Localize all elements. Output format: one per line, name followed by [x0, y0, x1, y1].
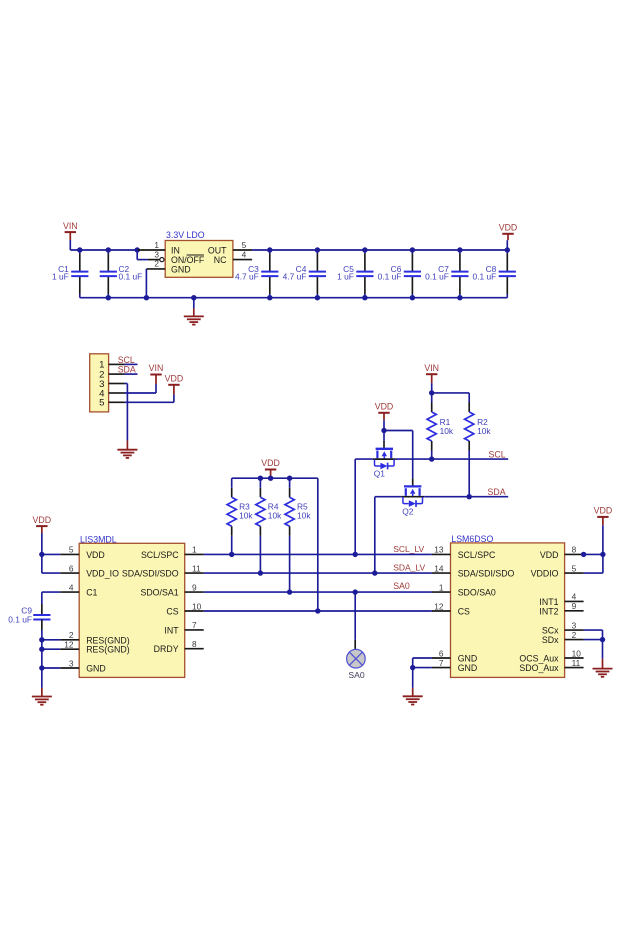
- svg-text:CS: CS: [458, 607, 470, 617]
- svg-text:6: 6: [439, 648, 444, 658]
- net label SCL_LV: [393, 544, 424, 554]
- wire VIN node to R2 top: [432, 393, 470, 403]
- svg-text:GND: GND: [458, 654, 478, 664]
- wire VDD rail to CS net: [317, 478, 319, 611]
- power flag VDD at LIS3MDL: [33, 515, 52, 555]
- LDO pin 2 GND wire: [146, 259, 165, 298]
- connector pin 5 stub: [109, 401, 125, 403]
- svg-text:VDD_IO: VDD_IO: [86, 569, 119, 579]
- wire to pin 12: [42, 648, 60, 650]
- junction bottom rail at ground stem: [191, 295, 196, 300]
- wire net SDA stub: [125, 373, 138, 375]
- wire pin 5 to VDD: [584, 554, 603, 573]
- junction bottom rail at C6: [410, 295, 415, 300]
- svg-text:SDx: SDx: [542, 635, 559, 645]
- svg-text:10: 10: [192, 601, 202, 611]
- junction bottom rail at C3: [267, 295, 272, 300]
- wire to pin 3: [42, 667, 60, 669]
- junction SCL at R1: [429, 456, 434, 461]
- LSM6DSO right pins 8 5 4 9 3 2 10 11: [519, 545, 583, 673]
- wire SDA net: [424, 496, 508, 498]
- resistor R5 10k: [285, 478, 311, 592]
- junction top rail at C3: [267, 247, 272, 252]
- wire VDD to pin 6: [42, 554, 60, 573]
- wire VIN top rail: [70, 249, 137, 251]
- junction VDD gate node: [381, 428, 386, 433]
- svg-text:1 uF: 1 uF: [337, 271, 354, 281]
- svg-text:SCL/SPC: SCL/SPC: [141, 550, 179, 560]
- svg-text:SCL_LV: SCL_LV: [393, 544, 424, 554]
- svg-text:2: 2: [572, 630, 577, 640]
- svg-text:10: 10: [572, 648, 582, 658]
- junction VIN node at R1 top: [429, 390, 434, 395]
- svg-text:VIN: VIN: [424, 363, 439, 373]
- svg-text:10k: 10k: [297, 511, 311, 521]
- svg-text:SA0: SA0: [348, 670, 364, 680]
- junction top rail at C5: [362, 247, 367, 252]
- junction C9 rail at pin12: [39, 647, 44, 652]
- junction SDA_LV at Q2 branch: [372, 570, 377, 575]
- wire net SCL stub: [125, 363, 138, 365]
- svg-text:8: 8: [192, 639, 197, 649]
- connector pin 2 stub: [109, 373, 125, 375]
- wire pin 8 to VDD: [584, 553, 603, 555]
- wire CS bus: [204, 610, 432, 612]
- junction top rail at C6: [410, 247, 415, 252]
- wire to pin 2: [42, 639, 60, 641]
- power flag VDD at LSM6DSO: [594, 506, 613, 555]
- resistor R1 10k: [427, 393, 454, 459]
- svg-text:VDDIO: VDDIO: [531, 569, 559, 579]
- wire LDO OUT top rail: [252, 249, 507, 251]
- LDO pin names: [171, 246, 227, 275]
- wire VDD to pin 5: [42, 553, 60, 555]
- ground below LSM6DSO: [403, 688, 423, 705]
- svg-text:VDD: VDD: [261, 458, 280, 468]
- wire pull-up VDD rail: [232, 477, 318, 479]
- wire SDA_LV bus: [204, 572, 432, 574]
- IC U1 LIS3MDL magnetometer: [79, 534, 185, 677]
- net label SA0: [393, 581, 410, 591]
- power flag VIN at connector: [149, 363, 164, 384]
- junction SA0 at jumper branch: [353, 589, 358, 594]
- svg-text:VDD: VDD: [499, 223, 518, 233]
- svg-text:4: 4: [69, 582, 74, 592]
- svg-text:GND: GND: [171, 264, 191, 274]
- svg-text:Q2: Q2: [402, 506, 414, 516]
- svg-text:OCS_Aux: OCS_Aux: [519, 654, 559, 664]
- LSM6DSO left pins 13 14 1 12 6 7: [432, 545, 515, 673]
- transistor Q1 N-MOSFET: [373, 449, 396, 479]
- ground below LDO: [184, 298, 204, 325]
- svg-text:1: 1: [439, 582, 444, 592]
- capacitor C6 0.1 uF: [378, 250, 421, 298]
- capacitor C1 1 uF: [52, 250, 88, 298]
- junction SCL_LV at Q1 branch: [353, 552, 358, 557]
- svg-text:1 uF: 1 uF: [52, 271, 69, 281]
- junction bottom rail at C2: [106, 295, 111, 300]
- svg-text:SDA_LV: SDA_LV: [393, 563, 425, 573]
- junction VDD at pin8 row: [600, 552, 605, 557]
- svg-text:10k: 10k: [239, 511, 253, 521]
- svg-text:10k: 10k: [440, 426, 454, 436]
- svg-text:7: 7: [439, 658, 444, 668]
- svg-text:4.7 uF: 4.7 uF: [235, 271, 259, 281]
- resistor R3 10k: [227, 478, 253, 554]
- svg-text:SDA: SDA: [488, 487, 506, 497]
- junction pull-up rail at R4: [258, 476, 263, 481]
- wire VDD node to Q1 gate: [383, 431, 385, 449]
- svg-text:9: 9: [192, 582, 197, 592]
- svg-text:LSM6DSO: LSM6DSO: [451, 534, 493, 544]
- ground below LIS3MDL: [32, 688, 52, 705]
- svg-text:0.1 uF: 0.1 uF: [378, 271, 402, 281]
- wire pin 4 to C9: [42, 592, 60, 615]
- LDO pin 4 NC stub: [233, 249, 252, 259]
- junction bottom rail at C5: [362, 295, 367, 300]
- svg-text:0.1 uF: 0.1 uF: [473, 271, 497, 281]
- junction pull-up rail at VDD: [268, 476, 273, 481]
- wire pin3 to ground: [125, 384, 128, 441]
- svg-text:VDD: VDD: [33, 515, 52, 525]
- junction top rail at C4: [315, 247, 320, 252]
- svg-text:LIS3MDL: LIS3MDL: [80, 534, 117, 544]
- junction top rail at C1: [77, 247, 82, 252]
- ground below connector: [117, 441, 137, 458]
- svg-text:SDO_Aux: SDO_Aux: [519, 663, 559, 673]
- capacitor C3 4.7 uF: [235, 250, 278, 298]
- svg-text:SCL: SCL: [118, 355, 135, 365]
- junction top rail at C7: [457, 247, 462, 252]
- svg-text:3: 3: [69, 658, 74, 668]
- connector pin 3 stub: [109, 383, 125, 385]
- svg-text:13: 13: [434, 545, 444, 555]
- wire Q2 to SDA_LV: [375, 497, 401, 573]
- connector pin 1 stub: [109, 363, 125, 365]
- net label SCL: [488, 449, 505, 459]
- junction bottom rail at LDO GND: [144, 295, 149, 300]
- junction bottom rail at C4: [315, 295, 320, 300]
- svg-text:2: 2: [154, 259, 159, 269]
- svg-text:9: 9: [572, 601, 577, 611]
- wire SCL_LV bus: [204, 553, 432, 555]
- svg-text:SDA: SDA: [118, 365, 136, 375]
- LIS3MDL right pins 1 11 9 10 7 8: [122, 545, 204, 655]
- svg-text:SA0: SA0: [393, 581, 410, 591]
- wire VDD node to Q2 gate: [384, 431, 413, 487]
- svg-text:RES(GND): RES(GND): [86, 645, 130, 655]
- svg-text:1: 1: [192, 545, 197, 555]
- power flag VIN above R1: [424, 363, 439, 393]
- svg-text:SCL/SPC: SCL/SPC: [458, 550, 496, 560]
- junction SDA at R2: [467, 494, 472, 499]
- junction C9 rail at pin2: [39, 637, 44, 642]
- junction top rail at C8: [505, 247, 510, 252]
- capacitor C2 0.1 uF: [100, 250, 143, 298]
- junction CS at VDD pull-up: [315, 608, 320, 613]
- transistor Q2 N-MOSFET: [401, 486, 424, 516]
- svg-text:3: 3: [572, 620, 577, 630]
- svg-text:0.1 uF: 0.1 uF: [119, 271, 143, 281]
- svg-text:6: 6: [69, 563, 74, 573]
- svg-text:Q1: Q1: [374, 469, 386, 479]
- junction top rail at C2: [106, 247, 111, 252]
- svg-text:11: 11: [572, 658, 581, 668]
- LIS3MDL left pins 5 6 4 2 12 3: [60, 545, 130, 674]
- wire Q1 to SCL_LV: [355, 459, 373, 554]
- wire pin4 to VIN: [125, 384, 157, 393]
- LDO pin 1 IN stub: [137, 240, 165, 250]
- junction top rail at LDO ON/OFF branch: [135, 247, 140, 252]
- svg-text:NC: NC: [214, 255, 227, 265]
- svg-text:C1: C1: [86, 588, 97, 598]
- ground at SCx SDx: [593, 659, 613, 677]
- svg-text:4: 4: [242, 249, 247, 259]
- svg-text:INT: INT: [164, 625, 179, 635]
- power flag VDD at Q1 gate: [375, 402, 394, 431]
- svg-text:8: 8: [572, 545, 577, 555]
- LDO pin 5 OUT stub: [233, 240, 252, 250]
- wire to ground SCx SDx: [602, 640, 604, 659]
- capacitor C4 4.7 uF: [283, 250, 326, 298]
- resistor R2 10k: [465, 403, 492, 497]
- svg-text:VIN: VIN: [63, 221, 78, 231]
- junction bottom rail at C7: [457, 295, 462, 300]
- svg-text:GND: GND: [458, 663, 478, 673]
- capacitor C5 1 uF: [337, 250, 373, 298]
- svg-text:7: 7: [192, 620, 197, 630]
- wire pin5 to VDD: [125, 394, 174, 402]
- svg-text:VDD: VDD: [540, 550, 559, 560]
- svg-text:0.1 uF: 0.1 uF: [425, 271, 449, 281]
- wire SCL net: [396, 458, 508, 460]
- svg-text:DRDY: DRDY: [154, 644, 179, 654]
- solder jumper SA0: [347, 592, 366, 680]
- svg-text:5: 5: [69, 545, 74, 555]
- wire GND pins 6 7: [413, 658, 432, 668]
- svg-text:SCL: SCL: [488, 449, 505, 459]
- svg-text:10k: 10k: [477, 426, 491, 436]
- connector pin 4 stub: [109, 392, 125, 394]
- svg-text:INT2: INT2: [539, 606, 558, 616]
- svg-text:12: 12: [64, 640, 74, 650]
- connector J1 5-pin header: [90, 354, 109, 412]
- power flag VDD above pull-ups: [261, 458, 280, 478]
- svg-text:VDD: VDD: [594, 506, 613, 516]
- wire SA0 bus: [204, 591, 432, 593]
- svg-text:SDO/SA0: SDO/SA0: [458, 588, 496, 598]
- power flag VDD (3.3V rail): [499, 223, 518, 251]
- net label SDA_LV: [393, 563, 425, 573]
- capacitor C8 0.1 uF: [473, 250, 516, 298]
- svg-text:14: 14: [434, 563, 444, 573]
- svg-text:10k: 10k: [268, 511, 282, 521]
- net label SDA: [488, 487, 506, 497]
- svg-text:GND: GND: [86, 664, 106, 674]
- svg-text:11: 11: [192, 563, 201, 573]
- svg-text:CS: CS: [166, 607, 178, 617]
- power flag VDD at connector: [165, 374, 184, 395]
- wire pin 3 SCx: [584, 630, 603, 640]
- wire GND bottom rail: [80, 297, 508, 299]
- svg-text:4.7 uF: 4.7 uF: [283, 271, 307, 281]
- svg-text:VDD: VDD: [86, 550, 105, 560]
- junction pin8 stub end: [581, 552, 586, 557]
- svg-text:5: 5: [572, 563, 577, 573]
- junction SA0 at R5: [287, 589, 292, 594]
- svg-text:SCx: SCx: [542, 626, 559, 636]
- svg-text:5: 5: [99, 398, 104, 409]
- svg-text:VDD: VDD: [165, 374, 184, 384]
- capacitor C9 0.1 uF: [8, 606, 50, 688]
- power flag VIN (input rail): [63, 221, 78, 250]
- svg-text:12: 12: [434, 601, 444, 611]
- IC U2 LSM6DSO IMU: [451, 534, 565, 677]
- junction SDA_LV at R4: [258, 570, 263, 575]
- voltage regulator 3.3V LDO: [165, 230, 233, 277]
- svg-text:VDD: VDD: [375, 402, 394, 412]
- resistor R4 10k: [256, 478, 282, 573]
- svg-text:SDO/SA1: SDO/SA1: [140, 588, 178, 598]
- junction SCL_LV at R3: [229, 552, 234, 557]
- junction pull-up rail at R5: [287, 476, 292, 481]
- junction VDD at pin5: [39, 552, 44, 557]
- svg-text:SDA/SDI/SDO: SDA/SDI/SDO: [458, 569, 515, 579]
- svg-text:3.3V LDO: 3.3V LDO: [166, 230, 205, 240]
- svg-text:0.1 uF: 0.1 uF: [8, 615, 32, 625]
- capacitor C7 0.1 uF: [425, 250, 468, 298]
- LDO pin 3 ON/OFF wire and bubble: [137, 249, 164, 261]
- junction SCx SDx joint: [600, 637, 605, 642]
- net label SCL: [118, 355, 135, 365]
- wire pin 2 SDx: [584, 639, 603, 641]
- net label SDA: [118, 365, 136, 375]
- svg-text:SDA/SDI/SDO: SDA/SDI/SDO: [122, 569, 179, 579]
- svg-text:VIN: VIN: [149, 363, 164, 373]
- junction C9 rail at pin3: [39, 665, 44, 670]
- junction GND pins joint: [410, 665, 415, 670]
- wire to ground LSM6DSO: [412, 668, 414, 688]
